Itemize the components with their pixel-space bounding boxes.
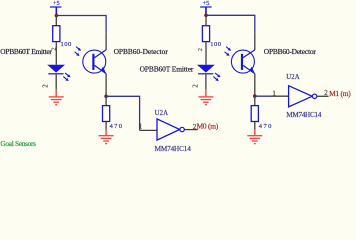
light arrows into Q1	[74, 45, 83, 57]
resistor R2 470	[103, 106, 110, 122]
wire collector pin Q2	[254, 32, 256, 50]
wire R3 to LED D2	[205, 42, 207, 65]
resistor R1 pin top	[55, 16, 57, 25]
op-amp inverter U2A-2	[289, 86, 317, 107]
svg-text:+5: +5	[203, 0, 210, 7]
wire junction to inverter U2A-2 input	[255, 95, 272, 97]
wire R4 to ground	[254, 122, 256, 130]
svg-text:M0 (m): M0 (m)	[197, 121, 219, 130]
LED D1 emission arrows	[62, 72, 71, 83]
svg-text:MM74HC14: MM74HC14	[155, 145, 192, 153]
phototransistor Q2	[231, 50, 255, 74]
svg-text:M1 (m): M1 (m)	[329, 89, 351, 98]
svg-text:U2A: U2A	[286, 74, 299, 81]
ground GND1	[49, 89, 64, 105]
svg-text:OPBB60-Detector: OPBB60-Detector	[264, 47, 317, 56]
svg-text:1: 1	[139, 123, 143, 131]
ground GND2	[99, 129, 114, 143]
wire LED D1 to ground	[55, 74, 57, 89]
phototransistor Q1	[83, 50, 107, 74]
junction J2	[104, 95, 108, 99]
svg-text:470: 470	[259, 123, 272, 130]
svg-text:2: 2	[324, 89, 328, 97]
wire R2 to ground	[105, 122, 107, 130]
wire R2 pin top	[105, 96, 107, 105]
svg-text:2: 2	[198, 48, 204, 51]
LED D1	[47, 65, 65, 75]
wire R1 to LED D1	[55, 42, 57, 65]
wire Q1 emitter down	[105, 74, 107, 97]
power +5 P2	[200, 0, 212, 15]
power +5 P1	[50, 0, 62, 15]
resistor R1 100	[53, 26, 60, 42]
svg-text:OPBB60T Emitter: OPBB60T Emitter	[0, 47, 52, 56]
wire inverter U2A input pin	[140, 129, 157, 131]
resistor R3 pin top	[205, 16, 207, 25]
resistor R3 100	[202, 26, 209, 42]
svg-text:1: 1	[272, 89, 276, 97]
wire U2A-2 output	[317, 95, 329, 97]
svg-text:470: 470	[110, 123, 123, 130]
svg-text:100: 100	[210, 41, 222, 48]
svg-text:Goal Sensors: Goal Sensors	[0, 139, 36, 148]
wire LED D2 to ground	[205, 74, 207, 89]
wire +5 rail top circuit1	[56, 16, 106, 33]
junction J4	[253, 94, 257, 98]
svg-text:OPBB60T Emitter: OPBB60T Emitter	[140, 65, 194, 74]
svg-text:OPBB60-Detector: OPBB60-Detector	[114, 47, 169, 56]
wire inverter U2A-2 input pin	[272, 95, 289, 97]
svg-text:2: 2	[42, 84, 50, 88]
resistor R4 470	[251, 106, 258, 122]
wire collector pin Q1	[105, 32, 107, 50]
junction J1	[55, 14, 59, 18]
ground GND3	[198, 89, 213, 105]
wire R4 pin top	[254, 96, 256, 105]
svg-text:2: 2	[51, 47, 57, 50]
svg-text:+5: +5	[53, 0, 60, 7]
svg-text:U2A: U2A	[155, 110, 168, 117]
LED D2 emission arrows	[212, 72, 221, 83]
svg-text:100: 100	[61, 41, 73, 48]
svg-text:MM74HC14: MM74HC14	[286, 111, 321, 119]
op-amp inverter U2A	[157, 119, 184, 140]
wire +5 rail top circuit2	[206, 15, 255, 32]
wire Q2 emitter down	[254, 74, 256, 97]
wire junction to inverter corner	[106, 96, 140, 130]
light arrows into Q2	[224, 45, 233, 57]
LED D2	[197, 65, 215, 75]
junction J3	[204, 14, 208, 18]
wire U2A output	[184, 129, 197, 131]
svg-text:2: 2	[192, 84, 200, 88]
ground GND4	[247, 129, 262, 143]
